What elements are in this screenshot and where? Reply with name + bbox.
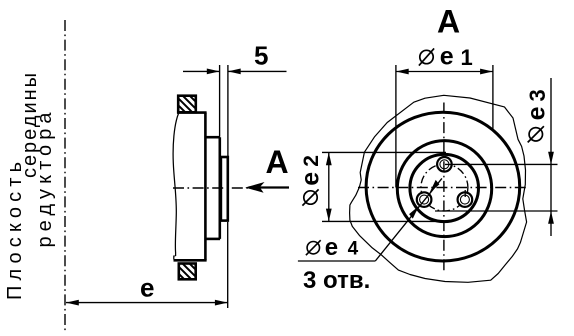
svg-text:1: 1 (461, 45, 473, 70)
component: hatched wall section (top) (165, 92, 214, 120)
wire: view A horizontal centerline (358, 187, 529, 189)
node: reducer middle plane centerline (vertical dash-dot) (64, 20, 66, 333)
component: inner circle (d = e2) (410, 154, 479, 221)
svg-text:Плоскость: Плоскость (4, 162, 26, 300)
svg-text:е: е (297, 172, 325, 186)
svg-text:5: 5 (254, 41, 268, 71)
node: dimension e (to reducer middle plane) (227, 222, 229, 308)
wire: view A vertical centerline (443, 103, 445, 273)
component: hatched wall section (bottom) (165, 260, 214, 288)
node: section arrow A (left view) (249, 186, 290, 188)
svg-text:е: е (440, 43, 454, 71)
component: bolt hole lower-right (458, 190, 473, 207)
svg-text:е: е (523, 106, 551, 120)
component: bolt hole top (d = e4) (437, 157, 452, 172)
svg-text:е: е (140, 273, 154, 303)
svg-text:3 отв.: 3 отв. (303, 267, 370, 294)
node: bolt circle (dash-dot, d = e3) (421, 164, 468, 211)
svg-text:4: 4 (348, 239, 359, 260)
component: bolt hole lower-left (417, 192, 432, 207)
node: dimension D e2 (left) (322, 152, 446, 221)
node: dimension D e1 (top) (396, 65, 493, 188)
svg-text:А: А (437, 4, 460, 40)
node: dimension D e3 (right, bolt circle) (435, 78, 558, 236)
component: outer flange circle (366, 112, 520, 261)
svg-text:3: 3 (525, 89, 550, 101)
component: casting contour (view A, irregular outline) (350, 95, 527, 282)
node: dimension 5 (face thickness) (183, 65, 287, 156)
component: flange step 2 (mounting face) (221, 157, 228, 221)
svg-text:А: А (266, 144, 289, 180)
svg-text:е: е (325, 234, 338, 261)
node: hole interior masks (418, 158, 471, 206)
component: flange step 1 (plate) (205, 137, 220, 239)
svg-text:редуктора: редуктора (34, 112, 56, 248)
svg-text:2: 2 (300, 155, 323, 167)
node: dimension D e4 leader (bolt holes) (298, 178, 442, 261)
node: plane-of-reducer-middle label (rotated text) (4, 73, 56, 300)
component: middle circle (d = e1) (397, 141, 491, 237)
component: flange body outline (section view) (173, 113, 207, 261)
wire: left view horizontal centerline (173, 187, 248, 189)
